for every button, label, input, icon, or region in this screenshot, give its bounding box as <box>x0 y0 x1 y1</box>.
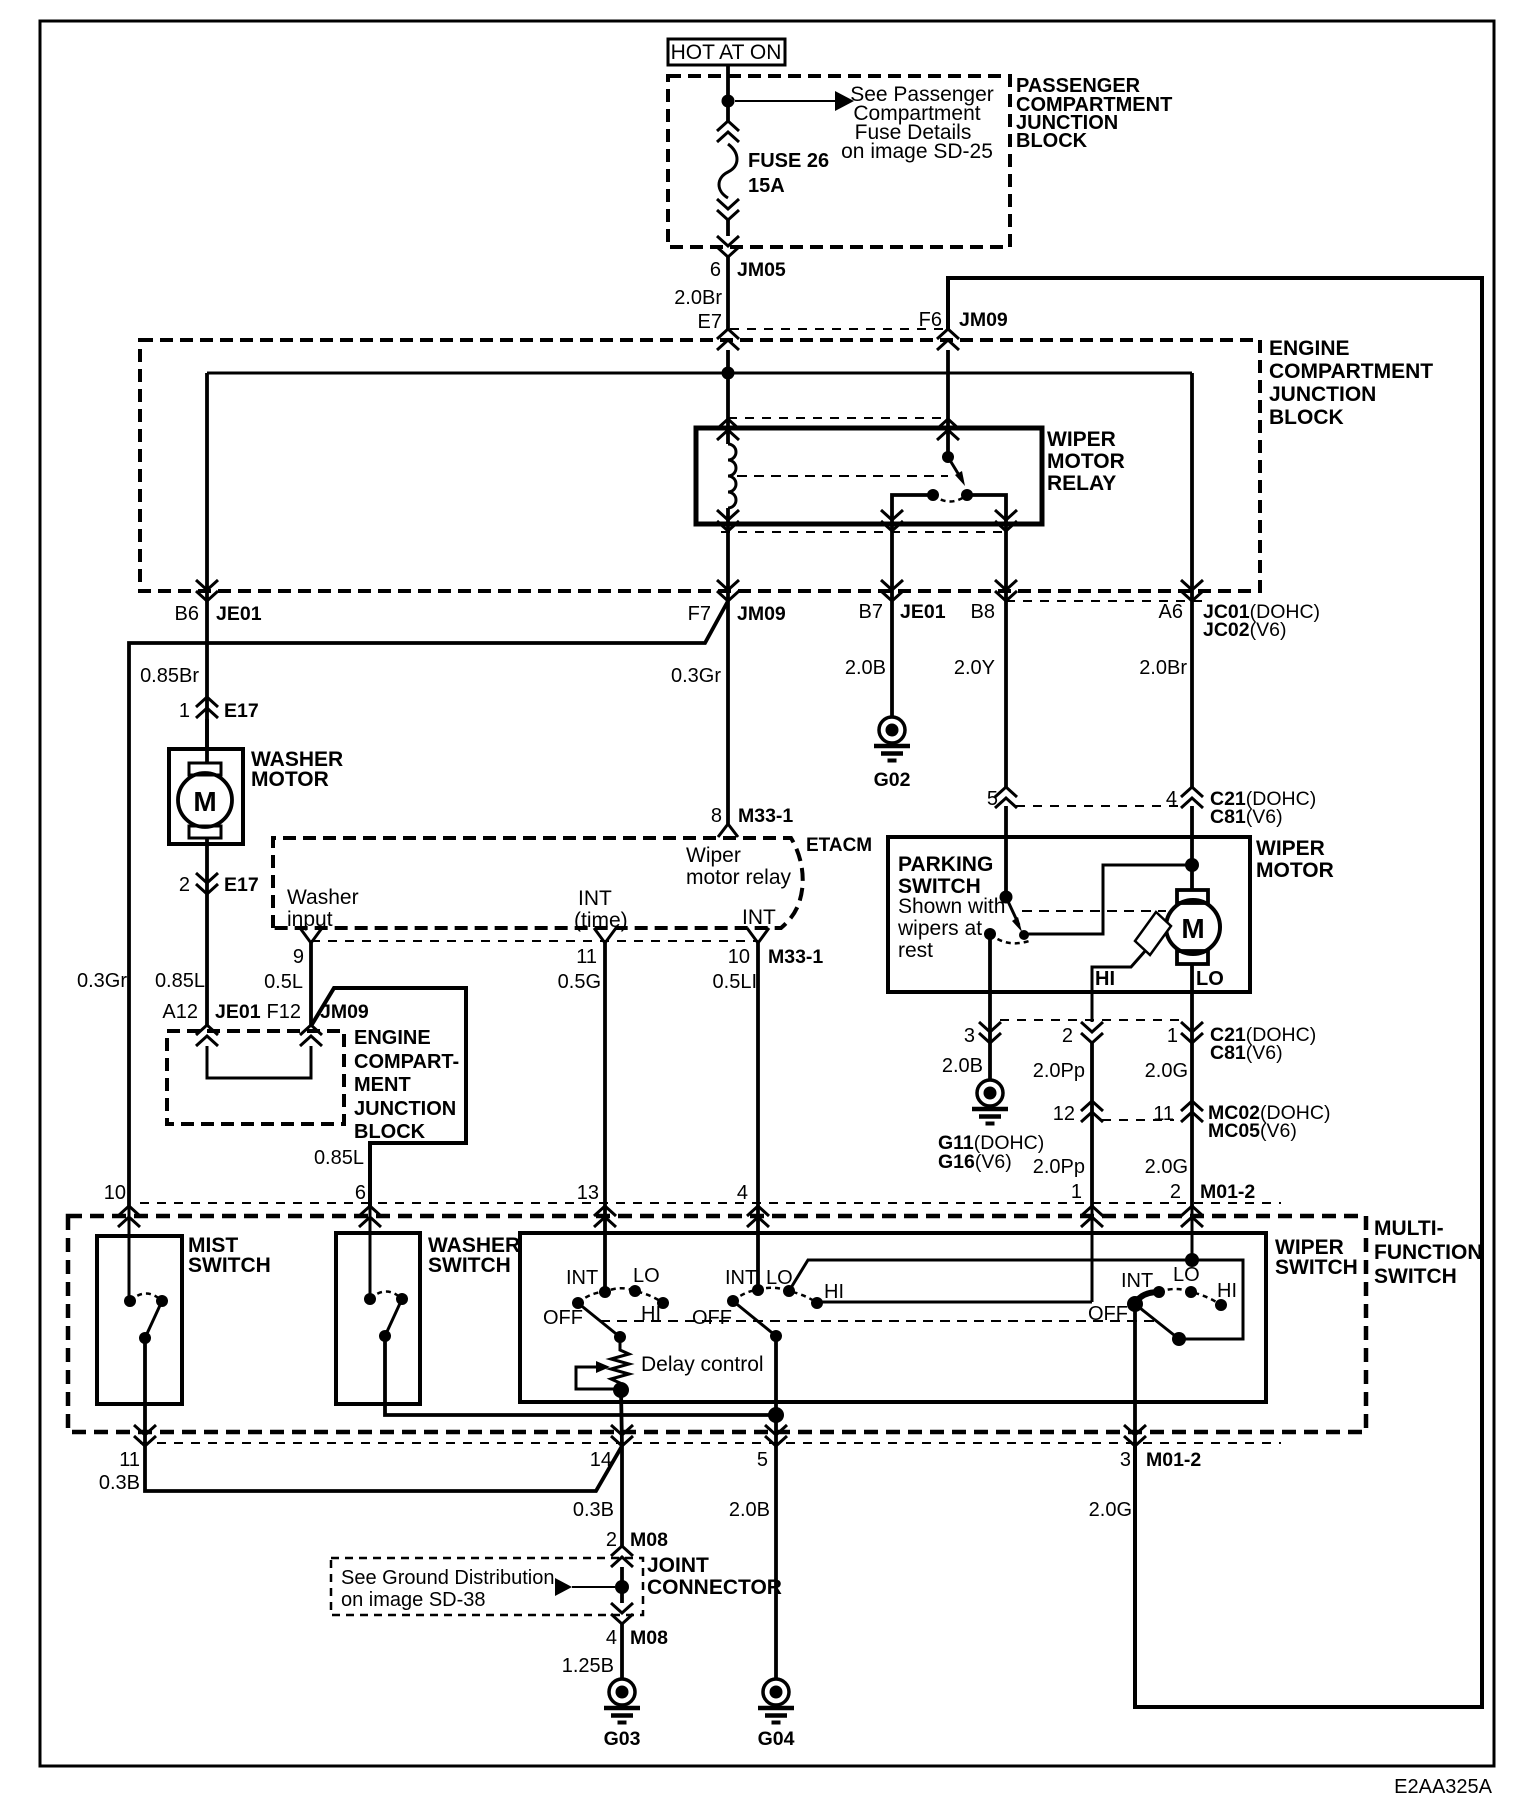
svg-text:1: 1 <box>1071 1181 1082 1203</box>
svg-text:G16(V6): G16(V6) <box>938 1151 1012 1173</box>
fuse FUSE 26 15A <box>717 121 739 220</box>
svg-text:0.85Br: 0.85Br <box>140 665 199 687</box>
svg-text:2.0G: 2.0G <box>1145 1156 1188 1178</box>
svg-text:HI: HI <box>1095 968 1115 990</box>
svg-text:MOTOR: MOTOR <box>1047 450 1125 473</box>
connector relay coil top <box>717 419 739 440</box>
svg-text:2.0Pp: 2.0Pp <box>1033 1060 1085 1082</box>
wire HI net wafer2 to pin 1 <box>817 1301 1092 1304</box>
wire 2.0Y B8 to parking switch <box>1004 601 1008 787</box>
wire 2.0B B7 to G02 <box>890 601 894 718</box>
resistor delay control R1 <box>576 1337 629 1398</box>
wire mechanical link dashed <box>600 1320 1157 1322</box>
ground G11 G16 <box>938 1080 1044 1173</box>
svg-text:2.0B: 2.0B <box>729 1499 770 1521</box>
svg-text:BLOCK: BLOCK <box>354 1121 426 1143</box>
svg-text:0.5G: 0.5G <box>558 971 601 993</box>
label Wiper motor relay <box>686 844 792 889</box>
svg-text:0.3Gr: 0.3Gr <box>671 665 721 687</box>
svg-text:M33-1: M33-1 <box>768 946 823 968</box>
svg-text:2: 2 <box>1170 1181 1181 1203</box>
svg-text:MOTOR: MOTOR <box>1256 859 1334 882</box>
wire E7 down to relay <box>726 350 730 444</box>
svg-text:0.5L: 0.5L <box>264 971 303 993</box>
svg-text:motor relay: motor relay <box>686 866 792 889</box>
washer switch S2 <box>364 1292 408 1343</box>
wire motor to pin2 <box>205 838 209 1026</box>
wire pin6 into washer switch <box>369 1206 372 1299</box>
svg-text:5: 5 <box>987 788 998 810</box>
svg-text:OFF: OFF <box>543 1307 583 1329</box>
svg-text:B6: B6 <box>175 603 199 625</box>
svg-text:0.3B: 0.3B <box>573 1499 614 1521</box>
svg-text:LO: LO <box>1196 968 1224 990</box>
svg-text:RELAY: RELAY <box>1047 472 1116 495</box>
svg-text:ETACM: ETACM <box>806 835 872 856</box>
svg-text:rest: rest <box>898 939 933 962</box>
node junction motor feed <box>1185 858 1199 872</box>
ground G04 <box>758 1679 795 1750</box>
wire fuse to JM05 <box>726 220 730 236</box>
connector MFS pin 1 <box>1081 1206 1103 1227</box>
wire 2.0G pin3 loop to F6 <box>948 278 1482 1707</box>
wire 2.0Pp pin2 to MC12 <box>1090 1043 1094 1206</box>
svg-text:E17: E17 <box>224 874 259 896</box>
svg-text:SWITCH: SWITCH <box>1275 1256 1358 1279</box>
svg-text:WIPER: WIPER <box>1256 837 1325 860</box>
wire wafer3 pivot to pin 3 <box>1133 1304 1137 1446</box>
wire mechanical dashed motor to parking switch <box>1022 910 1166 912</box>
svg-text:MENT: MENT <box>354 1074 411 1096</box>
svg-text:M33-1: M33-1 <box>738 805 793 827</box>
svg-text:JM09: JM09 <box>737 603 786 625</box>
svg-text:1: 1 <box>1167 1025 1178 1047</box>
connector JM05 pin 6 <box>717 236 739 257</box>
svg-text:2.0Br: 2.0Br <box>1139 657 1187 679</box>
svg-text:JM09: JM09 <box>320 1001 369 1023</box>
wire 0.3Gr branch F7 to mist switch <box>129 601 728 1206</box>
svg-text:2.0Br: 2.0Br <box>674 287 722 309</box>
connector MC02 pin 11 <box>1181 1101 1203 1122</box>
svg-text:2: 2 <box>1062 1025 1073 1047</box>
passenger compartment junction block box <box>668 76 1010 247</box>
svg-text:ENGINE: ENGINE <box>354 1027 431 1049</box>
wire parking park contact to pin 3 <box>988 934 992 1081</box>
svg-text:ENGINE: ENGINE <box>1269 337 1350 360</box>
svg-text:INT: INT <box>578 887 612 910</box>
wire 1.25B M08 to G03 <box>620 1624 624 1680</box>
svg-text:M08: M08 <box>630 1529 668 1551</box>
svg-text:COMPART-: COMPART- <box>354 1051 459 1073</box>
svg-text:BLOCK: BLOCK <box>1016 130 1088 152</box>
parking switch S3 <box>984 891 1029 944</box>
svg-text:M: M <box>1181 913 1204 944</box>
wire pin11 to MFS pin13 <box>603 943 607 1292</box>
svg-text:B7: B7 <box>859 601 883 623</box>
relay coil L1 <box>728 444 736 508</box>
wire connector dashed M33-1 <box>311 940 758 942</box>
svg-text:4: 4 <box>606 1627 617 1649</box>
ground G02 <box>874 717 911 791</box>
wiper switch wafer3 <box>1088 1264 1237 1346</box>
svg-text:INT: INT <box>1121 1270 1153 1292</box>
connector F7 JM09 <box>717 580 739 601</box>
svg-text:12: 12 <box>1053 1103 1075 1125</box>
svg-text:C81(V6): C81(V6) <box>1210 1042 1283 1064</box>
wire pin9 to F12 <box>309 943 313 1026</box>
wire connector dashed pin5-pin4 <box>1016 805 1181 807</box>
svg-text:M01-2: M01-2 <box>1200 1181 1255 1203</box>
connector MFS pin 14 <box>611 1425 633 1446</box>
engine compartment junction block box <box>140 340 1260 591</box>
label MULTI-FUNCTION SWITCH <box>1374 1217 1483 1288</box>
connector E17 pin 2 <box>196 873 218 894</box>
svg-text:M01-2: M01-2 <box>1146 1449 1201 1471</box>
svg-text:HI: HI <box>824 1281 844 1303</box>
wire dashed below relay <box>721 531 1010 533</box>
svg-text:13: 13 <box>577 1182 599 1204</box>
svg-text:See Ground Distribution: See Ground Distribution <box>341 1567 554 1589</box>
small engine compartment junction block box <box>167 1031 344 1124</box>
svg-text:2.0B: 2.0B <box>942 1055 983 1077</box>
wire 0.3B pin14 to M08 <box>620 1446 624 1547</box>
label See Passenger Compartment Fuse Details <box>841 83 994 163</box>
wiper switch box <box>520 1233 1266 1402</box>
svg-text:4: 4 <box>737 1182 748 1204</box>
wire pin10 to MFS pin4 <box>756 943 760 1290</box>
wire branch to A6 <box>207 372 1192 375</box>
svg-text:0.3B: 0.3B <box>99 1472 140 1494</box>
wire A6 branch down <box>1190 373 1194 601</box>
wire F7 to ETACM pin8 label <box>711 805 794 827</box>
svg-text:5: 5 <box>757 1449 768 1471</box>
svg-text:11: 11 <box>119 1449 140 1471</box>
wire 0.85Br B6 down <box>205 373 209 749</box>
connector M33-1 pin 10 <box>747 928 769 943</box>
wire pin2 down to junction <box>1191 1206 1194 1260</box>
svg-text:0.85L: 0.85L <box>155 970 205 992</box>
svg-text:F7: F7 <box>688 603 711 625</box>
wiper motor M1 <box>1135 890 1220 964</box>
svg-text:2: 2 <box>179 874 190 896</box>
wire connector dashed M01-2 top <box>140 1202 1281 1204</box>
svg-text:JE01: JE01 <box>215 1001 261 1023</box>
svg-text:15A: 15A <box>748 175 785 197</box>
svg-text:JC02(V6): JC02(V6) <box>1203 619 1286 641</box>
svg-text:G02: G02 <box>874 769 911 791</box>
svg-text:A12: A12 <box>162 1001 198 1023</box>
wire parking run contact to motor feed <box>1024 865 1192 934</box>
relay switch contacts <box>927 489 973 502</box>
wire wafer1 to pin 14 <box>621 1390 622 1446</box>
connector E7 <box>717 329 739 350</box>
svg-text:1.25B: 1.25B <box>562 1655 614 1677</box>
svg-text:WIPER: WIPER <box>1047 428 1116 451</box>
connector ETACM pin 8 <box>718 824 738 837</box>
label WIPER MOTOR RELAY <box>1047 428 1125 495</box>
svg-text:G04: G04 <box>758 1728 795 1750</box>
connector MC02 pin 12 <box>1081 1101 1103 1122</box>
label WASHER SWITCH <box>428 1234 520 1277</box>
wire pin10 into mist switch <box>128 1206 131 1301</box>
wire from HOT AT ON to fuse <box>726 65 730 121</box>
wire F6 down to relay switch <box>946 350 950 457</box>
svg-text:Delay control: Delay control <box>641 1353 764 1376</box>
svg-text:2.0G: 2.0G <box>1089 1499 1132 1521</box>
svg-text:SWITCH: SWITCH <box>428 1254 511 1277</box>
svg-text:MULTI-: MULTI- <box>1374 1217 1444 1240</box>
wiper motor box <box>888 837 1250 992</box>
wire 2.0B pin5 to G04 <box>774 1446 778 1680</box>
svg-text:11: 11 <box>1153 1103 1174 1125</box>
svg-text:wipers at: wipers at <box>897 917 982 940</box>
wire relay contact right to B8 <box>967 495 1006 601</box>
svg-text:JUNCTION: JUNCTION <box>1269 383 1376 406</box>
label PASSENGER COMPARTMENT JUNCTION BLOCK <box>1016 75 1172 152</box>
connector MFS pin 6 <box>359 1206 381 1227</box>
wire HI brush to pin 2 <box>1092 950 1146 1022</box>
svg-text:OFF: OFF <box>1088 1303 1128 1325</box>
node junction dot E7 branch <box>722 367 735 380</box>
label WIPER MOTOR <box>1256 837 1334 882</box>
svg-text:F12: F12 <box>267 1001 301 1023</box>
svg-text:PARKING: PARKING <box>898 853 993 876</box>
svg-text:3: 3 <box>1120 1449 1131 1471</box>
svg-text:SWITCH: SWITCH <box>1374 1265 1457 1288</box>
ground G03 <box>604 1679 641 1750</box>
connector F6 JM09 <box>937 329 959 350</box>
label WASHER MOTOR <box>251 748 343 791</box>
svg-text:HOT AT ON: HOT AT ON <box>671 41 782 64</box>
label PARKING SWITCH Shown with wipers at rest <box>897 853 1005 962</box>
node HOT AT ON <box>668 39 785 65</box>
connector MFS pin 3 M01-2 <box>1124 1425 1146 1446</box>
label WIPER SWITCH <box>1275 1236 1358 1279</box>
wire M08 internal <box>620 1567 624 1603</box>
washer switch box <box>336 1233 420 1404</box>
svg-text:10: 10 <box>104 1182 126 1204</box>
svg-text:E2AA325A: E2AA325A <box>1394 1776 1493 1798</box>
svg-text:E17: E17 <box>224 700 259 722</box>
svg-text:10: 10 <box>728 946 750 968</box>
node junction LO net pin2 <box>1185 1253 1199 1267</box>
svg-text:INT: INT <box>725 1267 757 1289</box>
connector C21 pin 3 <box>979 1022 1001 1043</box>
svg-text:B8: B8 <box>971 601 995 623</box>
svg-text:SWITCH: SWITCH <box>188 1254 271 1277</box>
connector C21 pin 4 <box>1181 787 1203 808</box>
svg-text:C81(V6): C81(V6) <box>1210 806 1283 828</box>
wire relay contact left to B7 <box>892 495 933 601</box>
wire connector dashed E7-F6 <box>730 328 946 330</box>
svg-text:8: 8 <box>711 805 722 827</box>
svg-text:CONNECTOR: CONNECTOR <box>647 1576 782 1599</box>
svg-text:11: 11 <box>576 946 597 968</box>
wire 0.3B pin11 to pin14 <box>145 1446 622 1491</box>
svg-text:F6: F6 <box>919 309 942 331</box>
svg-text:M: M <box>193 786 216 817</box>
svg-text:0.85L: 0.85L <box>314 1147 364 1169</box>
svg-text:BLOCK: BLOCK <box>1269 406 1344 429</box>
svg-text:2.0Y: 2.0Y <box>954 657 995 679</box>
svg-text:LO: LO <box>1173 1264 1200 1286</box>
wire pin4 to motor <box>1190 806 1194 891</box>
connector B6 JE01 <box>196 580 218 601</box>
wire internal jumper A12-F12 <box>207 1046 311 1078</box>
connector M33-1 pin 9 <box>300 928 322 943</box>
label INT (time) <box>574 887 628 932</box>
svg-text:JUNCTION: JUNCTION <box>354 1098 456 1120</box>
svg-text:2: 2 <box>606 1529 617 1551</box>
wire LO net wafer2 to wafer3 <box>789 1260 1243 1339</box>
svg-text:JE01: JE01 <box>216 603 262 625</box>
label ENGINE COMPARTMENT JUNCTION BLOCK small <box>354 1027 459 1143</box>
wire connector dashed MC 12-11 <box>1102 1119 1174 1121</box>
wiper motor relay U1 box <box>696 428 1042 524</box>
wiper switch wafer1 delay selector <box>543 1265 669 1343</box>
wire pin5 into parking switch <box>1004 806 1008 897</box>
svg-text:2.0B: 2.0B <box>845 657 886 679</box>
connector relay sw right bottom <box>995 510 1017 531</box>
wire LO brush to pin 1 <box>1190 964 1194 1043</box>
svg-text:2.0G: 2.0G <box>1145 1060 1188 1082</box>
connector B8 <box>995 580 1017 601</box>
svg-text:Wiper: Wiper <box>686 844 741 867</box>
svg-text:G03: G03 <box>604 1728 641 1750</box>
svg-text:JOINT: JOINT <box>647 1554 709 1577</box>
svg-text:0.3Gr: 0.3Gr <box>77 970 127 992</box>
label MIST SWITCH <box>188 1234 271 1277</box>
svg-text:JM05: JM05 <box>737 259 786 281</box>
wire wafer2 arm to pin 5 <box>774 1336 778 1446</box>
multifunction switch box <box>68 1216 1366 1432</box>
svg-text:6: 6 <box>355 1182 366 1204</box>
svg-text:input: input <box>287 908 333 931</box>
svg-text:INT: INT <box>566 1267 598 1289</box>
svg-text:INT: INT <box>742 906 776 929</box>
wire dashed above relay <box>728 417 948 419</box>
relay switch arm <box>942 451 965 486</box>
connector MFS pin 4 <box>747 1206 769 1227</box>
wiper switch wafer2 <box>692 1267 844 1342</box>
wire pin1 down into switch <box>1091 1206 1094 1302</box>
wire 2.0Br A6 to wiper motor <box>1190 601 1194 787</box>
svg-text:1: 1 <box>179 700 190 722</box>
wire 2.0Br JM05 to E7 <box>726 257 730 329</box>
svg-text:COMPARTMENT: COMPARTMENT <box>1269 360 1433 383</box>
wire relay actuation dashed <box>737 475 948 477</box>
connector MFS pin 10 <box>118 1206 140 1227</box>
svg-text:LO: LO <box>633 1265 660 1287</box>
connector B7 JE01 <box>881 580 903 601</box>
mist switch box <box>97 1236 182 1404</box>
joint connector M08 <box>606 1529 668 1551</box>
see ground distribution note box <box>331 1558 643 1615</box>
svg-text:on image SD-25: on image SD-25 <box>841 140 993 163</box>
connector MFS pin 11 <box>134 1425 156 1446</box>
svg-text:HI: HI <box>1217 1280 1237 1302</box>
ETACM box <box>273 838 803 928</box>
label ENGINE COMPARTMENT JUNCTION BLOCK <box>1269 337 1433 429</box>
connector MFS pin 13 <box>594 1206 616 1227</box>
mist switch S1 <box>124 1294 168 1345</box>
connector M33-1 pin 11 <box>594 928 616 943</box>
wire motor internal top <box>205 719 209 763</box>
svg-text:9: 9 <box>293 946 304 968</box>
wire connector dashed pins 3-2-1 <box>1000 1019 1181 1021</box>
connector A6 JC01 JC02 <box>1181 580 1203 601</box>
connector MFS pin 5 <box>765 1425 787 1446</box>
svg-text:MOTOR: MOTOR <box>251 768 329 791</box>
connector relay switch top <box>937 419 959 440</box>
svg-text:on image SD-38: on image SD-38 <box>341 1589 486 1611</box>
svg-text:FUNCTION: FUNCTION <box>1374 1241 1483 1264</box>
svg-text:A6: A6 <box>1159 601 1183 623</box>
svg-text:E7: E7 <box>698 311 722 333</box>
svg-text:6: 6 <box>710 259 721 281</box>
connector C21 pin 2 <box>1081 1022 1103 1043</box>
node junction dot feed <box>722 95 735 108</box>
wire 2.0G pin1 to MC11 <box>1190 1043 1194 1206</box>
node junction M08 <box>615 1580 629 1594</box>
connector F12 JM09 <box>300 1025 322 1046</box>
wire mist switch to pin 11 <box>143 1338 147 1446</box>
svg-text:JM09: JM09 <box>959 309 1008 331</box>
washer motor B1 <box>169 749 243 844</box>
svg-text:Washer: Washer <box>287 886 359 909</box>
wire connector dashed M01-2 bottom <box>140 1442 1281 1444</box>
wire relay coil bottom to F7 <box>726 508 730 824</box>
label HI LO <box>1095 968 1224 990</box>
svg-text:M08: M08 <box>630 1627 668 1649</box>
wire connector dashed B8-A6 <box>1006 600 1206 602</box>
svg-text:2.0Pp: 2.0Pp <box>1033 1156 1085 1178</box>
connector E17 pin 1 <box>196 697 218 718</box>
svg-text:(time): (time) <box>574 909 628 932</box>
wire arrow to see-passenger note <box>735 91 854 111</box>
wire washer feed loop F12 to washer switch <box>311 988 466 1206</box>
svg-text:3: 3 <box>964 1025 975 1047</box>
label Washer input <box>287 886 359 931</box>
label FUSE 26 15A <box>748 150 829 197</box>
connector A12 JE01 <box>196 1025 218 1046</box>
svg-text:JE01: JE01 <box>900 601 946 623</box>
svg-text:OFF: OFF <box>692 1307 732 1329</box>
connector C21 pin 1 <box>1181 1022 1203 1043</box>
label JOINT CONNECTOR <box>647 1554 782 1599</box>
connector MFS pin 2 <box>1181 1206 1203 1227</box>
node junction washer+pin5 <box>768 1407 784 1423</box>
svg-text:FUSE 26: FUSE 26 <box>748 150 829 172</box>
svg-text:0.5LI: 0.5LI <box>713 971 757 993</box>
wire arrow note to M08 <box>555 1578 615 1596</box>
connector relay sw left bottom <box>881 510 903 531</box>
connector relay coil bottom <box>717 510 739 531</box>
connector C21 pin 5 <box>995 787 1017 808</box>
svg-text:MC05(V6): MC05(V6) <box>1208 1120 1297 1142</box>
svg-text:Shown with: Shown with <box>898 895 1005 918</box>
wire washer switch to pin5 wire <box>385 1336 776 1415</box>
